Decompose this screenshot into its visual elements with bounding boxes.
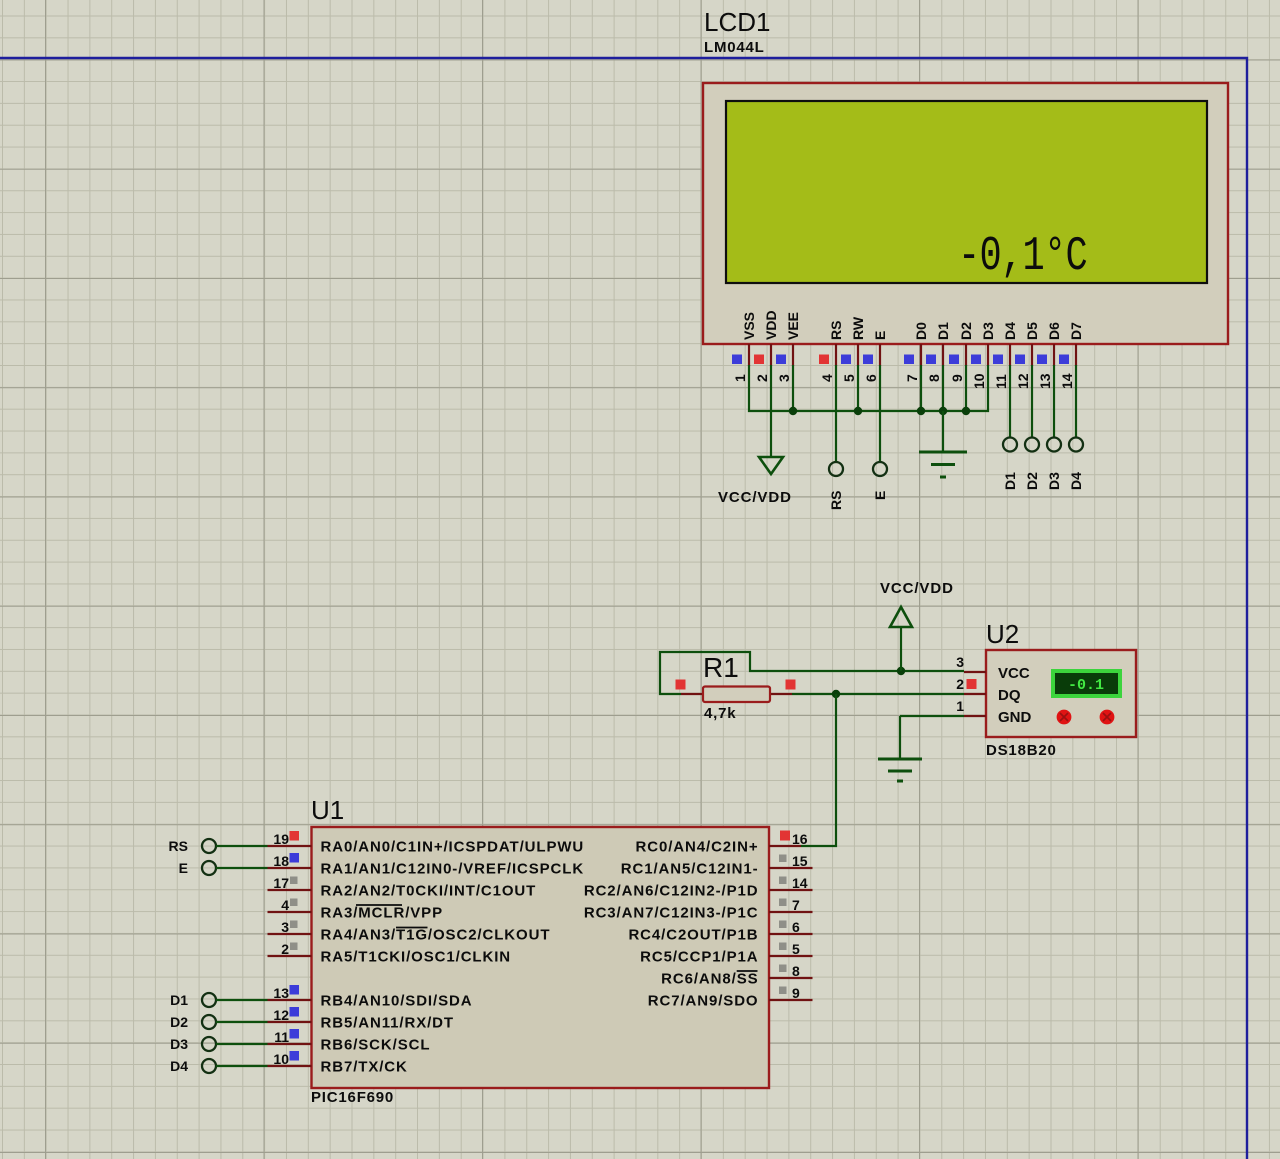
svg-text:D0: D0 xyxy=(913,322,929,340)
U1 overline over MCLR (pin 4 row) xyxy=(356,904,402,906)
svg-text:RC7/AN9/SDO: RC7/AN9/SDO xyxy=(648,993,759,1010)
svg-text:13: 13 xyxy=(1037,373,1053,389)
svg-text:E: E xyxy=(872,491,888,500)
svg-text:10: 10 xyxy=(273,1051,289,1067)
svg-text:RC1/AN5/C12IN1-: RC1/AN5/C12IN1- xyxy=(621,861,759,878)
terminal D1 (circle) at U1 left with label and wire xyxy=(170,992,267,1008)
resistor R1 value 4,7k xyxy=(704,705,736,722)
svg-text:RA3/MCLR/VPP: RA3/MCLR/VPP xyxy=(321,905,443,922)
svg-text:D1: D1 xyxy=(935,322,951,340)
U1 right pin 15 (RC1): stub, number, state square, name xyxy=(621,853,813,878)
LCD LCD1 reference label xyxy=(704,7,770,37)
svg-text:RA4/AN3/T1G/OSC2/CLKOUT: RA4/AN3/T1G/OSC2/CLKOUT xyxy=(321,927,551,944)
resistor R1 reference label xyxy=(703,652,739,683)
svg-text:7: 7 xyxy=(904,374,920,382)
svg-text:1: 1 xyxy=(732,374,748,382)
LCD pin 11 (D4): name label, stub, state square, number xyxy=(993,322,1018,389)
svg-text:15: 15 xyxy=(792,853,808,869)
svg-text:8: 8 xyxy=(926,374,942,382)
microcontroller U1 reference label xyxy=(311,795,344,825)
svg-text:D2: D2 xyxy=(1024,472,1040,490)
svg-text:5: 5 xyxy=(841,374,857,382)
LCD pin 13 (D6): name label, stub, state square, number xyxy=(1037,322,1062,389)
svg-text:D3: D3 xyxy=(980,322,996,340)
U1 left pin 17 (RA2): stub, number, state square, name xyxy=(268,875,537,900)
svg-text:E: E xyxy=(872,331,888,340)
wires: LCD D4..D7 (pins 11-14) to terminals D1..D4 xyxy=(1010,365,1076,438)
svg-text:-0.1: -0.1 xyxy=(1068,677,1104,694)
LCD screen (green) xyxy=(726,101,1207,283)
terminal RS (circle) with label xyxy=(828,462,844,510)
LCD pin 4 (RS): name label, stub, state square, number xyxy=(819,321,844,382)
U1 right pin 9 (RC7): stub, number, state square, name xyxy=(648,985,813,1010)
svg-text:D1: D1 xyxy=(1002,472,1018,490)
svg-text:7: 7 xyxy=(792,897,800,913)
svg-text:VCC/VDD: VCC/VDD xyxy=(880,580,954,597)
svg-text:2: 2 xyxy=(956,676,964,692)
LCD pin 14 (D7): name label, stub, state square, number xyxy=(1059,322,1084,389)
svg-text:RS: RS xyxy=(828,491,844,510)
svg-text:3: 3 xyxy=(776,374,792,382)
U2 temperature readout display -0.1 xyxy=(1051,669,1122,698)
wire: DQ net R1 right to U2 DQ (pin2) and down to U1 RC0 (pin16) xyxy=(792,690,964,846)
svg-text:4: 4 xyxy=(819,374,835,382)
svg-text:DQ: DQ xyxy=(998,687,1021,704)
svg-text:19: 19 xyxy=(273,831,289,847)
svg-text:RC5/CCP1/P1A: RC5/CCP1/P1A xyxy=(640,949,758,966)
svg-text:D5: D5 xyxy=(1024,322,1040,340)
svg-text:D3: D3 xyxy=(170,1036,188,1052)
terminal D4 (circle) at U1 left with label and wire xyxy=(170,1058,267,1074)
svg-text:VSS: VSS xyxy=(741,312,757,340)
svg-text:D2: D2 xyxy=(170,1014,188,1030)
LCD LCD1 value label LM044L xyxy=(704,39,765,56)
LCD display LCD1 body (LM044L) xyxy=(703,83,1228,344)
LCD pin 12 (D5): name label, stub, state square, number xyxy=(1015,322,1040,389)
LCD pin 2 (VDD): name label, stub, state square, number xyxy=(754,310,779,382)
U1 right pin 16 (RC0): stub, number, state square, name xyxy=(636,831,808,856)
svg-text:RW: RW xyxy=(850,316,866,340)
svg-text:6: 6 xyxy=(863,374,879,382)
LCD screen text -0,1°C xyxy=(958,229,1087,284)
wire: LCD ground bus (VSS,VEE,RW,D0..D3 to ground) xyxy=(749,365,988,415)
LCD pin 8 (D1): name label, stub, state square, number xyxy=(926,322,951,382)
U1 left pin 10 (RB7): stub, number, state square, name xyxy=(268,1051,408,1076)
svg-text:VCC: VCC xyxy=(998,665,1030,682)
U2 red indicator dots xyxy=(1057,710,1115,725)
terminal D1 (circle) under LCD with label xyxy=(1002,438,1018,491)
LCD pin 5 (RW): name label, stub, state square, number xyxy=(841,316,866,382)
power terminal VCC/VDD (down arrow) under LCD pin 2 xyxy=(718,457,792,506)
U1 right pin 8 (RC6): stub, number, state square, name xyxy=(661,963,812,988)
U1 right pin 7 (RC3): stub, number, state square, name xyxy=(584,897,813,922)
resistor R1 body xyxy=(681,687,792,703)
svg-text:11: 11 xyxy=(993,374,1009,389)
LCD pin 7 (D0): name label, stub, state square, number xyxy=(904,322,929,382)
wire: LCD VDD (pin2) to power terminal xyxy=(770,365,772,457)
terminal D3 (circle) at U1 left with label and wire xyxy=(170,1036,267,1052)
svg-text:D1: D1 xyxy=(170,992,188,1008)
svg-text:RB7/TX/CK: RB7/TX/CK xyxy=(321,1059,408,1076)
ground symbol under LCD (pin 8 net) xyxy=(919,411,967,477)
svg-text:RA1/AN1/C12IN0-/VREF/ICSPCLK: RA1/AN1/C12IN0-/VREF/ICSPCLK xyxy=(321,861,585,878)
svg-text:PIC16F690: PIC16F690 xyxy=(311,1089,394,1106)
U2 pin 1 stub (GND) xyxy=(956,698,986,716)
wire: LCD RS (pin4) to terminal xyxy=(835,365,837,462)
LCD pin 3 (VEE): name label, stub, state square, number xyxy=(776,312,801,382)
U1 left pin 3 (RA4): stub, number, state square, name xyxy=(268,919,551,944)
svg-text:9: 9 xyxy=(792,985,800,1001)
svg-text:17: 17 xyxy=(273,875,289,891)
terminal D2 (circle) at U1 left with label and wire xyxy=(170,1014,267,1030)
microcontroller U1 body (PIC16F690) xyxy=(312,827,770,1088)
svg-text:5: 5 xyxy=(792,941,800,957)
svg-text:RA2/AN2/T0CKI/INT/C1OUT: RA2/AN2/T0CKI/INT/C1OUT xyxy=(321,883,537,900)
U1 left pin 2 (RA5): stub, number, state square, name xyxy=(268,941,512,966)
U1 left pin 11 (RB6): stub, number, state square, name xyxy=(268,1029,431,1054)
svg-text:8: 8 xyxy=(792,963,800,979)
svg-text:D6: D6 xyxy=(1046,322,1062,340)
U2 pin names VCC DQ GND xyxy=(998,665,1032,726)
terminal D4 (circle) under LCD with label xyxy=(1068,438,1084,491)
svg-text:-0,1°C: -0,1°C xyxy=(958,229,1087,284)
power terminal VCC/VDD (up arrow) above U2 xyxy=(880,580,954,671)
svg-text:12: 12 xyxy=(1015,373,1031,389)
terminal E (circle) with label xyxy=(872,462,888,500)
svg-text:2: 2 xyxy=(281,941,289,957)
svg-text:D2: D2 xyxy=(958,322,974,340)
U1 left pin 18 (RA1): stub, number, state square, name xyxy=(268,853,585,878)
U1 right pin 6 (RC4): stub, number, state square, name xyxy=(628,919,812,944)
svg-text:RA5/T1CKI/OSC1/CLKIN: RA5/T1CKI/OSC1/CLKIN xyxy=(321,949,512,966)
temperature sensor U2 reference label xyxy=(986,619,1019,649)
svg-text:13: 13 xyxy=(273,985,289,1001)
svg-text:4: 4 xyxy=(281,897,289,913)
LCD pin 10 (D3): name label, stub, state square, number xyxy=(971,322,996,389)
LCD pin 6 (E): name label, stub, state square, number xyxy=(863,331,888,382)
U1 overline over T1G (pin 3 row) xyxy=(396,927,428,929)
svg-text:D4: D4 xyxy=(1068,472,1084,490)
svg-text:RS: RS xyxy=(169,838,188,854)
svg-text:DS18B20: DS18B20 xyxy=(986,742,1057,759)
svg-text:RC3/AN7/C12IN3-/P1C: RC3/AN7/C12IN3-/P1C xyxy=(584,905,759,922)
svg-text:RC6/AN8/SS: RC6/AN8/SS xyxy=(661,971,758,988)
svg-text:10: 10 xyxy=(971,373,987,389)
U1 left pin 4 (RA3): stub, number, state square, name xyxy=(268,897,443,922)
svg-text:U1: U1 xyxy=(311,795,344,825)
U2 pin 3 stub (VCC) xyxy=(956,654,986,672)
terminal D3 (circle) under LCD with label xyxy=(1046,438,1062,491)
U1 left pin 13 (RB4): stub, number, state square, name xyxy=(268,985,473,1010)
svg-text:RC2/AN6/C12IN2-/P1D: RC2/AN6/C12IN2-/P1D xyxy=(584,883,759,900)
svg-text:VCC/VDD: VCC/VDD xyxy=(718,489,792,506)
svg-text:RC0/AN4/C2IN+: RC0/AN4/C2IN+ xyxy=(636,839,759,856)
wire: LCD E (pin6) to terminal xyxy=(879,365,881,462)
svg-text:16: 16 xyxy=(792,831,808,847)
svg-text:6: 6 xyxy=(792,919,800,935)
svg-text:RC4/C2OUT/P1B: RC4/C2OUT/P1B xyxy=(628,927,758,944)
U2 pin 2 stub (DQ) with red state square xyxy=(956,676,986,694)
LCD pin 9 (D2): name label, stub, state square, number xyxy=(949,322,974,382)
wire: U2 GND (pin1) to ground xyxy=(900,716,964,759)
terminal RS (circle) at U1 left with label and wire xyxy=(169,838,268,854)
svg-text:U2: U2 xyxy=(986,619,1019,649)
U1 right pin 14 (RC2): stub, number, state square, name xyxy=(584,875,813,900)
svg-text:14: 14 xyxy=(792,875,808,891)
svg-text:D3: D3 xyxy=(1046,472,1062,490)
svg-text:E: E xyxy=(179,860,188,876)
svg-text:RS: RS xyxy=(828,321,844,340)
svg-text:3: 3 xyxy=(956,654,964,670)
svg-text:VEE: VEE xyxy=(785,312,801,340)
svg-text:RB5/AN11/RX/DT: RB5/AN11/RX/DT xyxy=(321,1015,454,1032)
svg-text:3: 3 xyxy=(281,919,289,935)
svg-text:9: 9 xyxy=(949,374,965,382)
svg-text:RB4/AN10/SDI/SDA: RB4/AN10/SDI/SDA xyxy=(321,993,473,1010)
terminal E (circle) at U1 left with label and wire xyxy=(179,860,268,876)
svg-text:12: 12 xyxy=(273,1007,289,1023)
U1 left pin 19 (RA0): stub, number, state square, name xyxy=(268,831,585,856)
terminal D2 (circle) under LCD with label xyxy=(1024,438,1040,491)
ground symbol under U2 pin 1 xyxy=(878,759,922,781)
svg-text:D7: D7 xyxy=(1068,322,1084,340)
svg-text:18: 18 xyxy=(273,853,289,869)
svg-text:11: 11 xyxy=(274,1029,289,1045)
svg-text:GND: GND xyxy=(998,709,1032,726)
svg-text:4,7k: 4,7k xyxy=(704,705,736,722)
svg-text:2: 2 xyxy=(754,374,770,382)
svg-text:RB6/SCK/SCL: RB6/SCK/SCL xyxy=(321,1037,431,1054)
wire: VCC net from R1 left around to U2 VCC (pin3) xyxy=(660,652,964,694)
svg-text:RA0/AN0/C1IN+/ICSPDAT/ULPWU: RA0/AN0/C1IN+/ICSPDAT/ULPWU xyxy=(321,839,585,856)
svg-text:D4: D4 xyxy=(1002,322,1018,340)
U1 right pin 5 (RC5): stub, number, state square, name xyxy=(640,941,812,966)
R1 pin state squares (red) xyxy=(676,680,796,690)
U1 value label PIC16F690 xyxy=(311,1089,394,1106)
svg-text:1: 1 xyxy=(956,698,964,714)
svg-text:R1: R1 xyxy=(703,652,739,683)
svg-text:LCD1: LCD1 xyxy=(704,7,770,37)
U2 value label DS18B20 xyxy=(986,742,1057,759)
U1 overline over SS (pin 8 row) xyxy=(737,970,758,972)
svg-text:D4: D4 xyxy=(170,1058,188,1074)
svg-text:VDD: VDD xyxy=(763,310,779,340)
U1 left pin 12 (RB5): stub, number, state square, name xyxy=(268,1007,454,1032)
temperature sensor U2 body (DS18B20) xyxy=(986,650,1136,737)
svg-text:14: 14 xyxy=(1059,373,1075,389)
LCD pin 1 (VSS): name label, stub, state square, number xyxy=(732,312,757,382)
svg-text:LM044L: LM044L xyxy=(704,39,765,56)
